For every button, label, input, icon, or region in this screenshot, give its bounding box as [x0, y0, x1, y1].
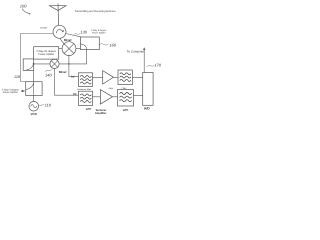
svg-text:Amplifier: Amplifier — [95, 112, 107, 115]
svg-text:To Computer: To Computer — [127, 49, 145, 53]
reference numeral 120 — [14, 75, 20, 79]
svg-text:LPF: LPF — [86, 107, 92, 111]
reference numeral 170 — [147, 63, 162, 68]
svg-text:A/D: A/D — [144, 107, 150, 111]
svg-text:Circulator: Circulator — [40, 27, 47, 30]
svg-text:Transmitting and Receiving Ant: Transmitting and Receiving Antenna — [75, 10, 116, 13]
filter F2A — [118, 70, 132, 85]
power splitter B2 — [26, 82, 42, 96]
IF wire mixer M1 to filter F1A — [69, 55, 79, 76]
filter F1A — [79, 73, 93, 87]
power splitter B1 — [34, 47, 59, 59]
svg-text:140: 140 — [45, 72, 52, 77]
svg-text:Power Splitter: Power Splitter — [92, 32, 106, 35]
splitter B3 label — [91, 29, 107, 35]
wire junction to mixer M2 — [34, 63, 50, 65]
wire circulator to power splitter B2 (TX feed) — [21, 33, 54, 81]
svg-text:Mixer: Mixer — [59, 70, 68, 74]
reference numeral 130 — [75, 30, 88, 35]
filter F1B — [79, 91, 93, 105]
junction node — [33, 63, 35, 65]
antenna — [50, 4, 67, 26]
wire circulator to mixer M1 — [60, 38, 65, 44]
reference numeral 100 — [20, 4, 31, 15]
svg-text:170: 170 — [154, 63, 161, 68]
svg-text:100: 100 — [20, 4, 27, 9]
power splitter B3 — [80, 37, 99, 50]
svg-text:Power Splitter: Power Splitter — [3, 91, 18, 94]
wire A2 to filter F2B — [113, 96, 118, 98]
wire F2A to ADC — [132, 76, 142, 78]
svg-text:Mixer: Mixer — [64, 38, 73, 42]
wire A1 to filter F2A — [114, 76, 119, 78]
reference numeral 160 — [99, 42, 116, 47]
reference numeral 110 — [39, 102, 52, 107]
wire F1B to amp A2 — [93, 96, 101, 98]
reference numeral 140 — [45, 70, 52, 78]
wire B1 to mixer M1 — [59, 47, 63, 49]
A/D converter box — [143, 73, 153, 106]
filter F2B — [118, 90, 134, 107]
hybrid coupler box S1 — [23, 59, 34, 71]
mixer M2 — [50, 59, 59, 68]
svg-text:Amp.: Amp. — [108, 87, 113, 90]
riser wire B2 to S1 — [33, 70, 35, 81]
svg-text:VCO: VCO — [30, 112, 37, 116]
splitter B2 label — [2, 88, 26, 94]
wire F1A to amp A1 — [93, 76, 103, 78]
circulator — [53, 25, 66, 38]
svg-text:Power Splitter: Power Splitter — [38, 53, 54, 56]
svg-text:LPF: LPF — [123, 108, 129, 112]
amplifier A2 — [100, 90, 112, 105]
wire B2 to VCO — [33, 96, 35, 102]
svg-text:160: 160 — [109, 42, 116, 47]
wire F2B to ADC — [134, 94, 143, 96]
svg-text:Bandpass Filter: Bandpass Filter — [77, 88, 91, 91]
oscillator VCO — [29, 101, 39, 111]
wire circulator to splitter B3 — [66, 34, 81, 37]
svg-text:130: 130 — [80, 30, 87, 35]
amplifier A1 — [103, 71, 114, 84]
wire B3 to mixer M1 — [76, 47, 81, 49]
mixer M1 — [62, 42, 76, 56]
IF wire mixer M2 to filter F1B — [55, 69, 79, 96]
svg-text:110: 110 — [45, 102, 52, 107]
wire splitter B3 to mixer M2 (RF feed) — [59, 50, 86, 64]
svg-text:120: 120 — [14, 75, 20, 79]
wire ADC to computer (arrow) — [143, 47, 145, 72]
